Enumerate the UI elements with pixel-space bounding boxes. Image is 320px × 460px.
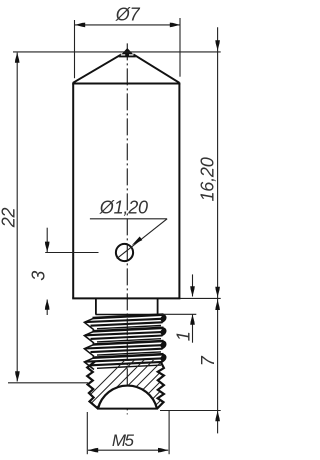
7 bottom arrow (up) — [215, 411, 220, 421]
22 bottom ext line — [8, 382, 88, 384]
leader shelf — [90, 218, 167, 220]
dim 1 bottom ext — [160, 313, 196, 315]
right ext: body bottom continuation — [180, 297, 221, 299]
right dim line — [217, 27, 219, 433]
3 top arrow (down) — [45, 242, 50, 252]
left zigzag edge — [87, 362, 98, 409]
M5 dim line — [88, 449, 168, 451]
neck left edge — [95, 298, 97, 314]
body left edge — [72, 84, 74, 299]
svg-text:1: 1 — [173, 331, 193, 341]
svg-text:22: 22 — [0, 207, 19, 228]
cone tip hatch triangle — [119, 48, 136, 57]
thread ridge 2 — [84, 328, 166, 343]
cone right slant — [133, 54, 179, 83]
dome (drill point) white fill — [98, 386, 157, 409]
dome arc — [98, 386, 157, 409]
svg-text:Ø7: Ø7 — [115, 5, 141, 25]
1 top arrow (down) — [190, 286, 195, 296]
centerline — [126, 43, 128, 414]
right ext at y=410.5 — [160, 410, 221, 412]
16,20 top arrow (down) — [215, 40, 220, 50]
top dim Ø7: extension lines — [74, 20, 76, 78]
svg-text:3: 3 — [28, 271, 48, 281]
svg-text:7: 7 — [198, 355, 218, 366]
hatch lines — [60, 350, 211, 425]
hole Ø1,20 circle — [116, 244, 133, 261]
top shared extension line y=51.9 — [13, 51, 221, 53]
cone left slant — [73, 54, 122, 83]
cone base line — [72, 83, 180, 85]
dia7 right arrow — [170, 23, 180, 28]
thread ridge 1 — [84, 315, 166, 330]
bottom piece outline + hatch — [60, 350, 211, 425]
dim 3: line — [46, 228, 48, 253]
top dim line — [75, 24, 180, 26]
svg-text:16,20: 16,20 — [197, 157, 217, 201]
M5 left arrow — [88, 448, 98, 453]
bottom edge — [97, 408, 158, 410]
7 top arrow (up) — [215, 300, 220, 310]
thread ridge 4 — [84, 354, 166, 369]
body bottom edge — [72, 297, 180, 299]
dia7 left arrow — [75, 23, 85, 28]
right zigzag edge — [157, 362, 164, 409]
22 bottom arrow (down) — [15, 371, 20, 381]
thread ridge 3 — [84, 341, 166, 356]
3 bottom arrow (up) — [45, 300, 50, 310]
M5 right arrow — [158, 448, 168, 453]
neck right edge — [157, 298, 159, 314]
body right edge — [178, 84, 180, 299]
svg-text:Ø1,20: Ø1,20 — [99, 197, 148, 217]
left dim 22 line — [16, 53, 18, 382]
dim 3 top ext — [45, 252, 98, 254]
arrowheads — [15, 23, 220, 453]
M5 ext lines — [86, 412, 88, 454]
leader arrow — [132, 237, 143, 246]
22 top arrow (up) — [15, 53, 20, 63]
16,20 bottom arrow (down) — [215, 287, 220, 297]
hole leader line — [117, 219, 167, 259]
1 bottom arrow (up) — [190, 315, 195, 325]
thread top crest line — [96, 314, 158, 316]
thread — [84, 315, 166, 370]
dim 1: line — [192, 274, 194, 296]
svg-text:M5: M5 — [112, 431, 135, 450]
